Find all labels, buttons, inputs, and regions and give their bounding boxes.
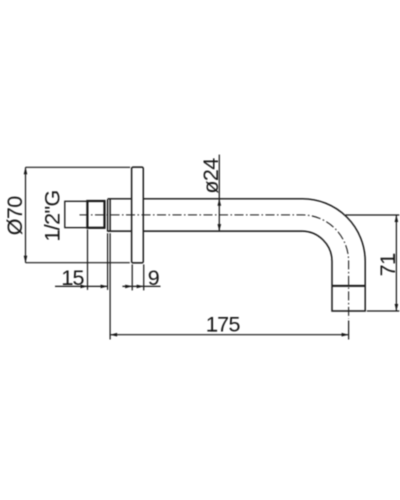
serif foot of 1 in label 15 [66, 283, 73, 285]
dim 15 left extension line [87, 230, 89, 290]
dim 71 top extension line [346, 214, 400, 216]
arrow 9 left inward [125, 285, 132, 289]
thread nut bold section [87, 201, 104, 228]
aerator cap line [332, 285, 365, 287]
arrow 71 up [395, 215, 399, 222]
dim 175 right extension line [348, 321, 350, 340]
arrow ø24 down [218, 224, 222, 231]
body cap line 2 [109, 199, 111, 231]
arrow Ø70 down [24, 256, 28, 263]
arrow 175 right [342, 333, 349, 337]
svg-text:1/2"G: 1/2"G [41, 190, 65, 241]
thread stub 1/2"G [65, 201, 88, 227]
dim 9 right extension line [143, 264, 145, 290]
serif foot of 1 in label 175 [210, 330, 217, 332]
arrow ø24 up [218, 199, 222, 206]
dim 71 bottom extension line [367, 310, 400, 312]
svg-text:Ø70: Ø70 [3, 196, 27, 235]
dim 15 dimension line [55, 285, 108, 287]
connector body outline [108, 199, 132, 231]
arrow 9 right inward [137, 285, 144, 289]
dim ø24 dimension line [218, 155, 220, 232]
arrow 15 right [101, 285, 108, 289]
dim Ø70 dimension line [25, 167, 27, 262]
svg-text:9: 9 [148, 266, 159, 290]
dim 175 left extension line [109, 233, 111, 339]
body cap line 1 [107, 199, 109, 231]
dim 9 left extension line [131, 264, 133, 290]
spout tube outline [143, 199, 365, 311]
svg-text:71: 71 [376, 254, 400, 277]
svg-text:ø24: ø24 [199, 158, 223, 194]
dim 71 dimension line [395, 215, 397, 311]
centerline axis dash-dot [80, 215, 349, 319]
arrow Ø70 up [24, 167, 28, 174]
serif foot of 1 in label 71 [393, 254, 395, 261]
dim Ø70 bottom extension line [26, 262, 130, 264]
dim 9 dimension line [122, 285, 160, 287]
dim 15 right extension line [107, 233, 109, 290]
svg-text:175: 175 [206, 313, 241, 337]
dim 175 dimension line [110, 334, 349, 336]
arrow 175 left [110, 333, 117, 337]
svg-text:15: 15 [61, 266, 84, 290]
dim Ø70 top extension line [26, 166, 131, 168]
arrow 71 down [395, 304, 399, 311]
serif foot of 1 in label 1/2"G [58, 230, 60, 237]
arrow 15 left [81, 285, 88, 289]
wall flange [132, 167, 144, 263]
